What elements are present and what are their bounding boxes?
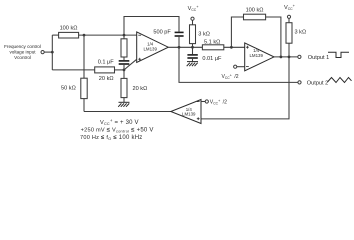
node 500pF tap (178, 46, 181, 49)
svg-text:3 kΩ: 3 kΩ (198, 32, 210, 38)
svg-text:3 kΩ: 3 kΩ (295, 30, 307, 36)
svg-text:20 kΩ: 20 kΩ (133, 86, 148, 92)
note text block (80, 118, 154, 141)
node 3k tap (191, 46, 194, 49)
op-amp U2 1/4 LM139 (245, 43, 274, 71)
svg-text:0.01 μF: 0.01 μF (202, 56, 222, 62)
svg-text:VCC+ /2: VCC+ /2 (222, 73, 239, 81)
wire 20k v1 top stub (123, 35, 125, 39)
terminal Output 1 (298, 55, 301, 58)
svg-text:+250 mV ≤ Vcontrol ≤ +50 V: +250 mV ≤ Vcontrol ≤ +50 V (81, 127, 154, 133)
svg-text:100 kΩ: 100 kΩ (60, 26, 78, 32)
resistor 3k center (190, 25, 196, 44)
wire 5.1k to op-amp2 (224, 46, 245, 48)
wire output row op-amp1 (168, 46, 202, 48)
svg-text:VCC+: VCC+ (188, 4, 200, 12)
resistor 20k vertical lower (121, 78, 127, 97)
wire output1 row (274, 56, 298, 58)
capacitor 0.01uF (187, 54, 197, 56)
wire 50k bottom (83, 99, 85, 112)
input terminal Vcontrol (41, 51, 44, 54)
square wave glyph (328, 52, 349, 57)
svg-text:Vcontrol: Vcontrol (14, 55, 31, 60)
resistor 100k feedback (244, 14, 266, 20)
resistor 3k right (286, 23, 292, 44)
wire 500pF bottom (178, 37, 180, 48)
node feedback join (280, 56, 283, 59)
wire x84 column (83, 35, 85, 78)
node input junction (51, 51, 54, 54)
wire output1 down to comparator3 (201, 57, 289, 119)
svg-text:500 pF: 500 pF (153, 30, 171, 36)
svg-text:Output 2: Output 2 (307, 80, 328, 86)
wire bottom run to comparator output (84, 111, 171, 113)
svg-text:VCC+ = + 30 V: VCC+ = + 30 V (100, 118, 139, 126)
svg-text:VCC+: VCC+ (284, 3, 296, 11)
svg-text:5.1 kΩ: 5.1 kΩ (204, 39, 220, 45)
svg-text:LM139: LM139 (143, 46, 157, 51)
op-amp U1 1/4 LM139 (137, 32, 169, 63)
terminal Vcc/2 op-amp2 (234, 65, 237, 68)
capacitor 0.1uF (119, 60, 130, 62)
node 0.1uF junction (123, 69, 126, 72)
ground under 0.01uF (187, 62, 198, 67)
svg-text:LM139: LM139 (249, 53, 263, 58)
op-amp U3 1/4 LM139 (171, 100, 201, 124)
svg-text:700 Hz ≤ fO ≤ 100 kHz: 700 Hz ≤ fO ≤ 100 kHz (80, 135, 143, 141)
resistor 20k vertical upper (121, 39, 127, 57)
wire to ground1 (123, 98, 125, 102)
terminal Output 2 (298, 81, 301, 84)
resistor 5.1k (202, 45, 223, 50)
wire feedback row right (266, 17, 281, 57)
svg-text:Frequency control: Frequency control (4, 44, 41, 49)
wire 3k bottom (192, 44, 194, 55)
wire 100k left lead (52, 34, 58, 36)
wire 500pF top rail (124, 17, 179, 36)
wire 3k right bottom (288, 43, 290, 57)
input label Frequency control voltage input Vcontrol (4, 44, 41, 60)
svg-text:100 kΩ: 100 kΩ (246, 8, 264, 14)
wire plus input diagonal (124, 59, 136, 69)
resistor 20k horizontal (95, 67, 115, 73)
node pullup join (288, 56, 291, 59)
triangle wave glyph (328, 78, 352, 83)
node row / riser (123, 34, 126, 37)
node feedback tap (230, 46, 233, 49)
svg-text:VCC+ /2: VCC+ /2 (210, 98, 227, 106)
wire left rail vertical (51, 35, 53, 70)
wire cap to ground2 (192, 59, 194, 62)
svg-text:50 kΩ: 50 kΩ (61, 86, 76, 92)
wire cap to junction (123, 65, 125, 79)
wire to 0.1uF (123, 57, 125, 60)
wire feedback row left (231, 17, 243, 47)
wire input to left rail (44, 51, 52, 53)
svg-text:voltage input: voltage input (9, 49, 36, 54)
resistor 100k input (59, 32, 79, 38)
wire Vcc1 to 3k (192, 20, 194, 24)
resistor 50k (81, 78, 87, 98)
wire minus input row (79, 34, 137, 36)
capacitor 500pF (175, 32, 184, 34)
svg-text:LM139: LM139 (182, 111, 196, 116)
ground under 20k (118, 102, 129, 107)
wire Vcc2 to 3k (288, 19, 290, 23)
svg-text:0.1 μF: 0.1 μF (98, 59, 115, 65)
wire triangle out drop (179, 47, 298, 82)
node 100k right (83, 34, 86, 37)
wire lower row to 20k (52, 69, 94, 71)
wire 20k right lead (115, 69, 125, 71)
svg-text:Output 1: Output 1 (308, 55, 329, 61)
terminal Vcc/2 op-amp3 (201, 101, 205, 103)
svg-text:20 kΩ: 20 kΩ (99, 76, 114, 82)
